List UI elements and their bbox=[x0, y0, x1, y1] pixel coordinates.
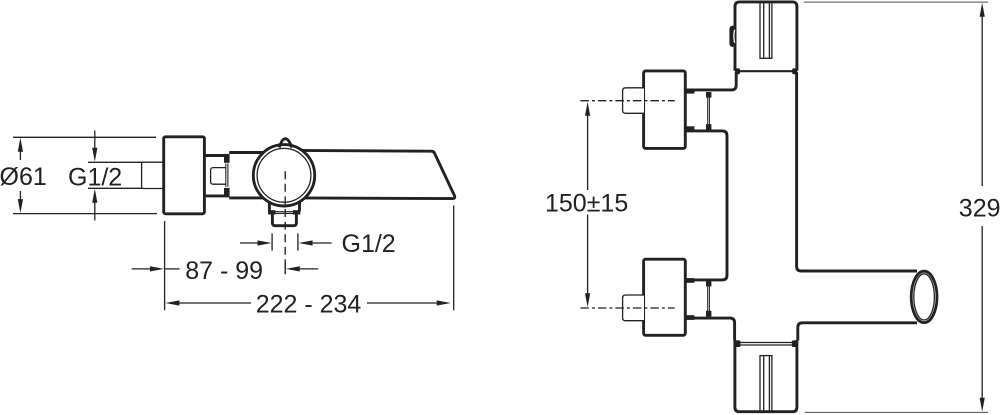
bottom arm seam lines bbox=[707, 286, 709, 313]
dimension G1/2 (outlet) arrows bbox=[240, 240, 332, 245]
dimension Ø61 arrows bbox=[18, 138, 23, 213]
dimension G1/2 (inlet) arrows bbox=[92, 131, 97, 221]
bottom arm flange bbox=[644, 259, 686, 335]
extension line bottom (flange O.D.) bbox=[13, 213, 157, 215]
body top edge bbox=[229, 151, 270, 154]
extension line left (wall) bbox=[164, 221, 166, 310]
seam nub top bbox=[224, 154, 230, 163]
dimension 87-99 bbox=[132, 266, 319, 271]
svg-text:Ø61: Ø61 bbox=[0, 163, 47, 191]
centerline tick at 87-99 arrow bbox=[284, 263, 286, 274]
spout end inner ellipse bbox=[914, 274, 935, 320]
svg-text:222 - 234: 222 - 234 bbox=[256, 291, 362, 319]
safety button on handle bbox=[729, 26, 736, 47]
bottom joint lines bbox=[738, 342, 797, 344]
centerline bottom arm bbox=[580, 307, 674, 309]
top handle bbox=[735, 2, 797, 71]
top handle grip stripes bbox=[759, 3, 772, 58]
collar bottom edge bbox=[203, 194, 230, 197]
extension line inlet bottom bbox=[88, 187, 145, 189]
top arm nipple bbox=[623, 88, 644, 114]
bottom handle grip stripes bbox=[759, 356, 772, 411]
svg-text:G1/2: G1/2 bbox=[68, 164, 122, 192]
bottom arm nub lower bbox=[706, 311, 711, 317]
indicator notch bbox=[279, 139, 292, 148]
body left edge between arms bbox=[686, 131, 727, 280]
bottom arm nub upper bbox=[706, 281, 711, 287]
dimension 150±15 bbox=[585, 102, 590, 307]
body left edge above top arm bbox=[686, 72, 736, 90]
dimension 222-234 bbox=[165, 300, 450, 305]
seam lines flange/body bbox=[225, 164, 227, 187]
top arm sleeve bumps bbox=[686, 89, 694, 94]
collar nipple bbox=[211, 168, 226, 185]
svg-text:87 - 99: 87 - 99 bbox=[185, 257, 263, 285]
extension line right (spout tip) bbox=[453, 205, 455, 310]
top joint line bbox=[735, 70, 797, 72]
centerline top arm bbox=[580, 100, 674, 102]
body right edge bbox=[797, 72, 917, 271]
top arm seam lines bbox=[707, 96, 709, 126]
wall flange bbox=[164, 137, 205, 214]
seam nub bottom bbox=[224, 188, 230, 197]
top arm nub lower bbox=[706, 124, 711, 130]
dashed centerline of outlet bbox=[284, 171, 286, 273]
extension tick left (outlet thread) bbox=[271, 233, 273, 250]
extension line inlet top bbox=[88, 161, 143, 163]
outlet union below knob bbox=[268, 202, 300, 225]
spout bbox=[296, 150, 455, 198]
bottom handle bbox=[735, 340, 797, 412]
bottom arm sleeve bumps bbox=[686, 278, 694, 283]
extension line top (overall height) bbox=[804, 1, 988, 3]
inlet pipe stub bbox=[142, 162, 164, 188]
top arm nub upper bbox=[706, 92, 711, 98]
extension tick right (outlet thread) bbox=[297, 233, 299, 250]
bottom arm nipple bbox=[623, 295, 644, 321]
svg-text:G1/2: G1/2 bbox=[342, 230, 396, 258]
svg-text:329: 329 bbox=[959, 194, 1000, 222]
extension line top (flange O.D.) bbox=[13, 136, 156, 138]
handle knob fill bbox=[253, 145, 314, 206]
spout bottom edge bbox=[798, 323, 917, 341]
handle knob inner circle bbox=[257, 148, 311, 202]
handle knob outer circle bbox=[253, 145, 314, 206]
bottom joint nub left bbox=[735, 340, 741, 347]
bottom joint nub right bbox=[792, 340, 798, 347]
body left edge below bottom arm bbox=[686, 318, 735, 340]
top arm flange bbox=[644, 71, 686, 148]
extension line bottom (overall height) bbox=[805, 411, 988, 413]
spout end outer ellipse bbox=[911, 271, 937, 322]
dimension 329 bbox=[980, 3, 985, 412]
body bottom edge bbox=[229, 196, 270, 199]
collar top edge bbox=[203, 154, 230, 157]
top joint nub left bbox=[735, 68, 740, 74]
svg-text:150±15: 150±15 bbox=[545, 190, 628, 218]
top joint nub right bbox=[792, 68, 797, 74]
